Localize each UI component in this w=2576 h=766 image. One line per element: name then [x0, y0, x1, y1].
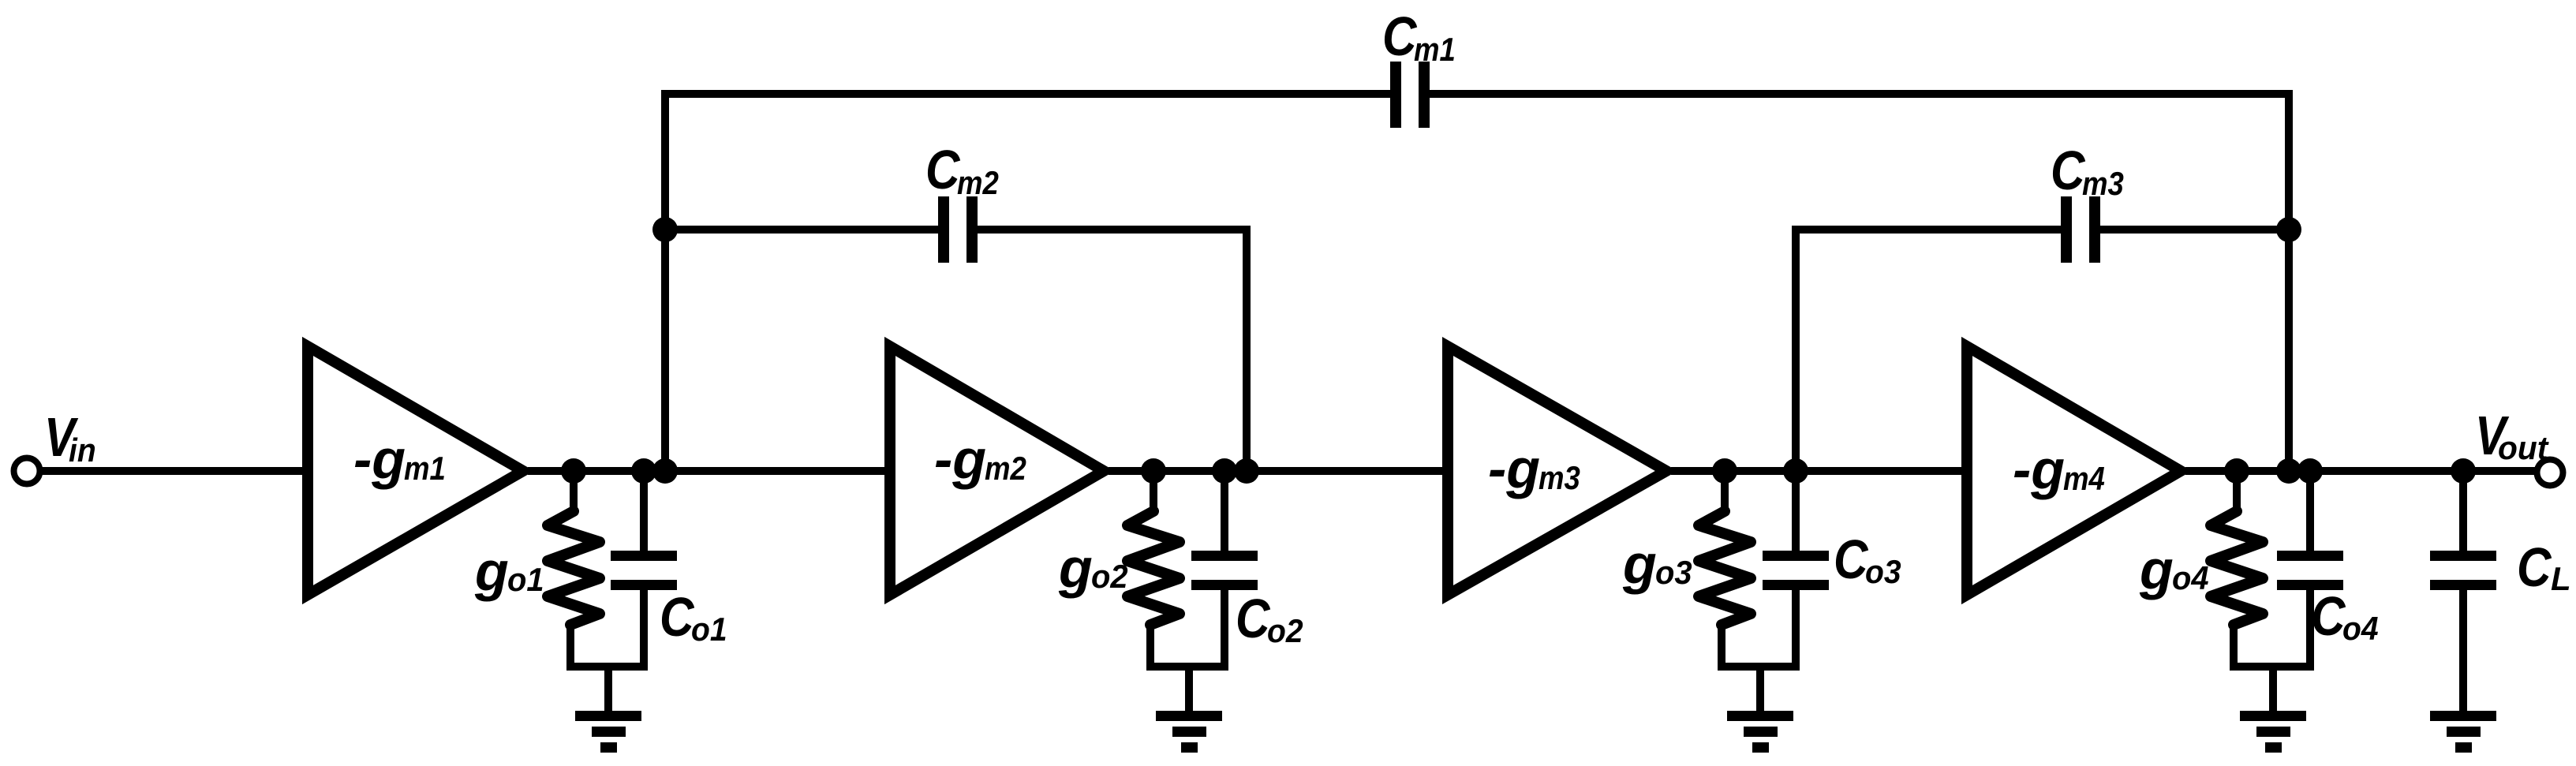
capacitor Cm2 (nested Miller compensation stage 1-2)	[938, 196, 978, 263]
label Cm3	[2051, 140, 2124, 203]
wire joining go1 and Co1 bottoms	[567, 667, 648, 714]
label -gm1	[353, 428, 446, 490]
ground symbol for stage 1	[575, 711, 641, 753]
wire Cm3 left segment	[1792, 226, 2061, 234]
svg-text:-g: -g	[2013, 439, 2065, 500]
svg-text:o4: o4	[2172, 559, 2209, 596]
svg-text:o2: o2	[1267, 612, 1303, 650]
ground symbol for stage 2	[1156, 711, 1222, 753]
svg-text:C: C	[2051, 140, 2085, 201]
svg-text:-g: -g	[1488, 438, 1540, 499]
label Cm1	[1382, 6, 1456, 69]
wire vertical riser from Vout node up to Cm3 and Cm1	[2285, 90, 2293, 471]
wire gm1 output to gm2 input (node V1)	[528, 467, 892, 475]
capacitor Co1 (output capacitance of stage 1)	[611, 467, 677, 671]
wire gm4 output to Vout terminal	[2185, 467, 2536, 475]
svg-text:o4: o4	[2342, 610, 2379, 648]
resistor go1 (output conductance of stage 1)	[548, 467, 600, 671]
svg-text:m1: m1	[1414, 32, 1456, 69]
label go4	[2139, 539, 2209, 600]
label go3	[1622, 533, 1692, 595]
resistor go2 (output conductance of stage 2)	[1127, 467, 1180, 671]
svg-text:out: out	[2498, 429, 2550, 466]
svg-text:in: in	[69, 432, 96, 469]
svg-text:C: C	[1236, 588, 1270, 649]
node dot junction of riser with Cm3 wire	[2276, 217, 2301, 242]
node dot V2 at go2	[1141, 458, 1166, 484]
wire Vin to gm1 input	[39, 467, 309, 475]
label Cm2	[925, 139, 999, 202]
ground symbol for stage 3	[1727, 711, 1793, 753]
label CL	[2517, 536, 2571, 598]
svg-text:m3: m3	[2082, 166, 2124, 203]
op-amp stage -gm2 (inverting transconductance amplifier U2)	[890, 346, 1104, 595]
svg-text:-g: -g	[934, 428, 986, 490]
node dot Vout at Co4	[2297, 458, 2323, 484]
node dot V1 at go1	[561, 458, 586, 484]
node dot Vout at CL	[2451, 458, 2476, 484]
op-amp stage -gm3 (inverting transconductance amplifier U3)	[1448, 346, 1666, 595]
label -gm3	[1488, 438, 1580, 499]
wire Cm1 left segment	[661, 90, 1390, 98]
label go2	[1058, 537, 1128, 599]
svg-text:m1: m1	[404, 450, 446, 488]
node dot junction of riser with Cm2 wire	[652, 217, 678, 242]
capacitor Cm3 (nested Miller compensation stage 3-4)	[2061, 196, 2100, 263]
node dot V2 at Co2	[1212, 458, 1237, 484]
svg-text:o1: o1	[691, 611, 727, 648]
capacitor Cm1 (outer Miller compensation)	[1390, 62, 1430, 128]
svg-text:L: L	[2551, 560, 2571, 597]
node dot V3 at go3	[1712, 458, 1737, 484]
svg-text:C: C	[1834, 529, 1868, 590]
wire gm2 output to gm3 input (node V2)	[1109, 467, 1449, 475]
label Co3	[1834, 529, 1901, 591]
input terminal Vin (open circle)	[14, 458, 40, 484]
node dot V3 at Co3/Cm3 branch	[1783, 458, 1808, 484]
wire gm3 output to gm4 input (node V3)	[1671, 467, 1968, 475]
label go1	[474, 540, 544, 602]
label Vin	[44, 405, 96, 469]
svg-text:C: C	[925, 139, 960, 200]
node dot V2 at Cm2 branch	[1234, 458, 1259, 484]
svg-text:m4: m4	[2063, 461, 2105, 498]
label Co2	[1236, 588, 1303, 650]
wire vertical riser from node V3 up to Cm3 left end (also Co3 top lead)	[1792, 226, 1800, 556]
svg-text:m2: m2	[985, 450, 1026, 488]
capacitor Co3 (output capacitance of stage 3)	[1763, 467, 1829, 671]
capacitor CL (load capacitor)	[2430, 467, 2496, 714]
capacitor Co4 (output capacitance of stage 4)	[2277, 467, 2343, 671]
op-amp stage -gm4 (inverting transconductance amplifier U4)	[1967, 346, 2181, 595]
svg-text:o1: o1	[507, 561, 544, 598]
label Co4	[2311, 585, 2379, 648]
resistor go4 (output conductance of stage 4)	[2211, 467, 2263, 671]
wire joining go4 and Co4 bottoms	[2230, 667, 2314, 714]
wire Cm3 right segment	[2100, 226, 2293, 234]
node dot Vout at Cm1/Cm3 branch	[2276, 458, 2301, 484]
svg-text:m3: m3	[1538, 460, 1580, 497]
wire Cm2 left segment	[661, 226, 938, 234]
op-amp stage -gm1 (inverting transconductance amplifier U1)	[308, 346, 523, 595]
label Vout	[2475, 404, 2550, 466]
svg-text:C: C	[2517, 536, 2552, 598]
wire Cm2 right segment	[978, 226, 1251, 234]
svg-text:C: C	[2311, 585, 2346, 647]
wire vertical riser from node V1 up to Cm1 and Cm2	[661, 90, 669, 471]
label -gm2	[934, 428, 1026, 490]
label Co1	[660, 586, 727, 648]
svg-text:o2: o2	[1091, 558, 1128, 595]
wire Cm1 right segment	[1430, 90, 2293, 98]
svg-text:g: g	[1058, 537, 1093, 599]
label -gm4	[2013, 439, 2105, 500]
ground symbol for stage 4	[2240, 711, 2306, 753]
svg-text:g: g	[1622, 533, 1657, 595]
svg-text:g: g	[474, 540, 509, 602]
svg-text:m2: m2	[957, 165, 999, 202]
wire joining go2 and Co2 bottoms	[1147, 667, 1228, 714]
node dot V1 at Cm1/Cm2 branch	[652, 458, 678, 484]
svg-text:o3: o3	[1865, 553, 1901, 591]
node dot V1 at Co1	[631, 458, 656, 484]
svg-text:C: C	[1382, 6, 1417, 67]
resistor go3 (output conductance of stage 3)	[1699, 467, 1751, 671]
ground symbol for CL	[2430, 711, 2496, 753]
capacitor Co2 (output capacitance of stage 2)	[1191, 467, 1258, 671]
wire vertical drop from Cm2 right end down to node V2	[1243, 226, 1251, 471]
node dot Vout at go4	[2224, 458, 2249, 484]
svg-text:g: g	[2139, 539, 2174, 600]
svg-text:-g: -g	[353, 428, 406, 490]
output terminal Vout (open circle)	[2537, 460, 2563, 486]
wire joining go3 and Co3 bottoms	[1718, 667, 1800, 714]
svg-text:C: C	[660, 586, 694, 648]
svg-text:o3: o3	[1655, 554, 1692, 591]
